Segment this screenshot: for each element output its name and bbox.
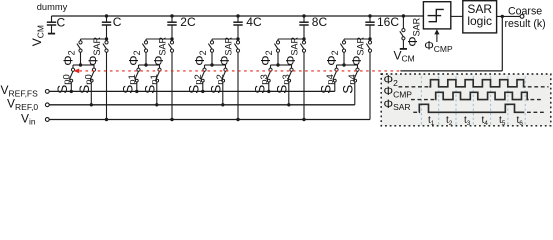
svg-text:Coarse: Coarse [508, 6, 542, 18]
wire S_p0 to V_REF,FS rail [70, 82, 72, 91]
svg-text:ΦSAR: ΦSAR [217, 36, 233, 65]
switch S_n4 [354, 68, 359, 82]
switch S_p0 [69, 68, 74, 82]
timing diagram box [381, 74, 551, 126]
wire S_n4 to V_REF,0 rail [354, 82, 356, 105]
wire phiSAR switch to V_in rail (bit 1) [171, 52, 173, 119]
time interval labels t1..t6 [428, 115, 523, 127]
red arrowhead [73, 69, 79, 74]
waveform phiCMP [411, 92, 543, 99]
wire S_n3 to V_REF,0 rail [288, 82, 290, 105]
switch phiSAR (bit 4) [366, 41, 371, 52]
wire phi2 switch down to S switches (bit 0) [80, 52, 82, 65]
node: top-plate junction of 8C [302, 14, 305, 17]
junction on V_REF,FS rail [70, 90, 73, 93]
node: bottom-plate of 2C [170, 37, 173, 40]
capacitor 2C [167, 16, 176, 39]
wire S_n1 to V_REF,0 rail [156, 82, 158, 105]
V_REF,0 rail [49, 104, 355, 106]
wire S_p1 to V_REF,FS rail [136, 82, 138, 91]
svg-text:ΦSAR: ΦSAR [349, 36, 365, 65]
output node junction [501, 15, 504, 18]
switch phiSAR (top-plate reset) [400, 29, 405, 40]
svg-text:Φ2: Φ2 [324, 50, 340, 65]
red dashed SAR control line [79, 70, 400, 72]
node: SAR switch pair junction (bit 3) [276, 63, 279, 66]
junction on V_REF,FS rail [201, 90, 204, 93]
junction on V_REF,0 rail [221, 103, 224, 106]
svg-text:ΦCMP: ΦCMP [424, 39, 453, 54]
comparator hysteresis symbol [428, 9, 444, 21]
switch S_n0 [90, 68, 95, 82]
node: rail junction for reset switch [402, 14, 405, 17]
wire to S_p switch [205, 64, 213, 66]
wire to S_n switch [278, 64, 292, 66]
svg-text:dummy: dummy [37, 2, 68, 12]
junction on V_REF,0 rail [90, 103, 93, 106]
svg-text:VCM: VCM [30, 25, 45, 46]
feedback wire from SAR logic output (vertical) [501, 16, 503, 71]
svg-text:C: C [57, 16, 66, 30]
wire to phi2 switch [81, 38, 107, 40]
junction on V_in rail [236, 118, 239, 121]
wire S_p3 to V_REF,FS rail [268, 82, 270, 91]
node: top-plate junction of 2C [170, 14, 173, 17]
waveform phiSAR [413, 104, 545, 112]
wire phi2 switch down to S switches (bit 3) [277, 52, 279, 65]
wire phiSAR switch to V_in rail (bit 2) [237, 52, 239, 119]
svg-text:ΦSAR: ΦSAR [405, 17, 421, 46]
switch phi2 (bit 4) [340, 41, 345, 52]
junction on V_in rail [170, 118, 173, 121]
wire to S_p switch [337, 64, 345, 66]
switch S_n3 [288, 68, 293, 82]
switch S_n2 [222, 68, 227, 82]
wire to S_p switch [73, 64, 81, 66]
junction on V_REF,0 rail [287, 103, 290, 106]
wire S_p4 to V_REF,FS rail [334, 82, 336, 91]
junction on V_REF,FS rail [135, 90, 138, 93]
svg-text:Φ2: Φ2 [258, 50, 274, 65]
capacitor 8C [299, 16, 308, 39]
switch S_p2 [201, 68, 206, 82]
svg-text:Vin: Vin [21, 111, 36, 126]
svg-text:VREF,0: VREF,0 [7, 97, 38, 112]
waveform phi2 [399, 80, 549, 87]
junction on V_REF,0 rail [155, 103, 158, 106]
SAR logic block [463, 1, 497, 33]
wire phi2 switch down to S switches (bit 4) [343, 52, 345, 65]
V_REF,FS terminal [45, 90, 49, 94]
node: SAR switch pair junction (bit 1) [144, 63, 147, 66]
node: bottom-plate of C [105, 37, 108, 40]
svg-text:logic: logic [467, 14, 492, 28]
output wire [497, 15, 521, 17]
V_CM terminal (reset) [400, 48, 407, 50]
svg-text:result (k): result (k) [505, 18, 546, 30]
svg-text:VCM: VCM [394, 48, 415, 63]
wire to S_n switch [81, 64, 95, 66]
wire phiSAR switch to V_in rail (bit 4) [369, 52, 371, 119]
svg-text:16C: 16C [377, 15, 399, 29]
node: SAR switch pair junction (bit 2) [210, 63, 213, 66]
wire to S_p switch [139, 64, 147, 66]
feedback wire (horizontal) [400, 70, 502, 72]
switch phiSAR (bit 3) [300, 41, 305, 52]
svg-text:Φ2: Φ2 [126, 50, 142, 65]
wire to S_n switch [212, 64, 226, 66]
capacitor C [102, 16, 111, 39]
wire to phi2 switch [212, 38, 238, 40]
clock input arrow phiCMP [434, 29, 439, 42]
switch phi2 (bit 3) [274, 41, 279, 52]
svg-text:ΦSAR: ΦSAR [151, 36, 167, 65]
svg-text:2C: 2C [180, 15, 196, 29]
node: top-plate junction of 16C [368, 14, 371, 17]
capacitor 16C [365, 16, 374, 39]
wire to S_n switch [146, 64, 160, 66]
switch S_p1 [135, 68, 140, 82]
junction on V_REF,FS rail [267, 90, 270, 93]
node: SAR switch pair junction (bit 4) [342, 63, 345, 66]
svg-text:8C: 8C [312, 15, 328, 29]
wire S_n0 to V_REF,0 rail [90, 82, 92, 105]
wire to phi2 switch [278, 38, 304, 40]
junction on V_in rail [302, 118, 305, 121]
wire rail to reset switch [402, 16, 404, 29]
node: top-plate junction of 4C [236, 14, 239, 17]
wire reset switch to V_CM terminal [402, 40, 404, 49]
switch S_p3 [267, 68, 272, 82]
node: top-plate junction of C [105, 14, 108, 17]
svg-text:ΦSAR: ΦSAR [86, 36, 102, 65]
wire phi2 switch down to S switches (bit 2) [211, 52, 213, 65]
svg-text:Φ2: Φ2 [60, 50, 76, 65]
op-amp U1: clocked comparator box [423, 2, 450, 29]
timing grid: blue dashed vertical lines [421, 76, 525, 125]
svg-text:4C: 4C [246, 15, 262, 29]
V_REF,FS rail [49, 90, 335, 92]
svg-text:ΦSAR: ΦSAR [283, 36, 299, 65]
switch phiSAR (bit 1) [168, 41, 173, 52]
svg-text:C: C [113, 15, 122, 29]
wire phi2 switch down to S switches (bit 1) [145, 52, 147, 65]
wire S_n2 to V_REF,0 rail [222, 82, 224, 105]
V_REF,0 terminal [45, 103, 49, 107]
capacitor C (dummy) [47, 16, 56, 33]
node: bottom-plate of 8C [302, 37, 305, 40]
switch phi2 (bit 2) [208, 41, 213, 52]
switch phiSAR (bit 0) [103, 41, 108, 52]
V_in rail [49, 119, 370, 121]
switch phiSAR (bit 2) [234, 41, 239, 52]
node: bottom-plate of 16C [368, 37, 371, 40]
V_CM terminal of dummy capacitor [48, 33, 55, 35]
switch S_p4 [333, 68, 338, 82]
switch phi2 (bit 0) [77, 41, 82, 52]
V_in terminal [45, 118, 49, 122]
output terminal [520, 15, 524, 19]
wire to S_p switch [271, 64, 279, 66]
node: bottom-plate of 4C [236, 37, 239, 40]
svg-text:Φ2: Φ2 [192, 50, 208, 65]
junction on V_in rail [105, 118, 108, 121]
wire phiSAR switch to V_in rail (bit 3) [303, 52, 305, 119]
wire S_p2 to V_REF,FS rail [202, 82, 204, 91]
wire to phi2 switch [344, 38, 370, 40]
top plate rail of capacitor DAC [52, 15, 424, 17]
wire to S_n switch [344, 64, 358, 66]
wire comparator to SAR logic [451, 15, 463, 17]
wire phiSAR switch to V_in rail (bit 0) [106, 52, 108, 119]
switch phi2 (bit 1) [142, 41, 147, 52]
node: SAR switch pair junction (bit 0) [79, 63, 82, 66]
switch S_n1 [156, 68, 161, 82]
wire to phi2 switch [146, 38, 172, 40]
capacitor 4C [233, 16, 242, 39]
